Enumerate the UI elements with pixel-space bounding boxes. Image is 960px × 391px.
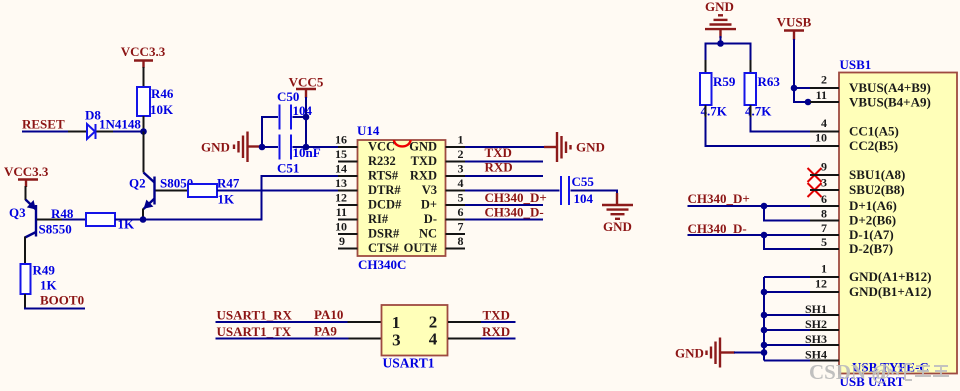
svg-text:CC1(A5): CC1(A5) — [849, 124, 899, 139]
svg-text:2: 2 — [821, 73, 827, 87]
svg-text:1N4148: 1N4148 — [99, 117, 141, 132]
svg-text:RI#: RI# — [368, 212, 389, 226]
resistor R49 — [21, 263, 58, 295]
svg-text:CSDN @: CSDN @ — [809, 360, 891, 384]
svg-text:SBU2(B8): SBU2(B8) — [849, 182, 905, 197]
wire USART1_TX to P1 pin3 — [216, 338, 383, 340]
svg-text:3: 3 — [458, 162, 464, 176]
svg-text:12: 12 — [815, 277, 827, 291]
wire R46 to node A — [143, 116, 145, 132]
svg-text:6: 6 — [821, 192, 827, 206]
wire C50 to VCC5 node — [293, 116, 307, 118]
svg-text:8: 8 — [458, 234, 464, 248]
svg-text:D-2(B7): D-2(B7) — [849, 241, 893, 256]
wire GND to shield bus — [734, 352, 764, 354]
node E junction (C51/VCC5/pin16) — [303, 144, 310, 151]
svg-text:3: 3 — [821, 176, 827, 190]
svg-text:RXD: RXD — [482, 324, 510, 339]
watermark CSDN — [809, 360, 949, 384]
U14 left pin names — [368, 140, 402, 256]
svg-text:11: 11 — [336, 205, 347, 219]
svg-text:12: 12 — [335, 191, 347, 205]
node O junction (GND wire) — [761, 349, 768, 356]
wire U14 pin2 TXD — [465, 161, 543, 163]
node G junction (VUSB/pin2) — [791, 85, 798, 92]
svg-text:D+2(B6): D+2(B6) — [849, 213, 896, 228]
svg-text:VUSB: VUSB — [777, 15, 812, 30]
resistor R46 — [137, 86, 174, 117]
wire CH340_D+ to USB1 pin6/pin8 — [688, 206, 811, 221]
svg-text:104: 104 — [293, 103, 313, 118]
power VCC3.3 (left) — [4, 164, 49, 187]
svg-text:CH340_D-: CH340_D- — [485, 205, 544, 220]
node I junction (D+ branch) — [761, 203, 768, 210]
U14 right pin stubs 1..8 — [446, 147, 466, 249]
svg-text:SH3: SH3 — [805, 332, 827, 346]
svg-text:5: 5 — [458, 191, 464, 205]
svg-text:NC: NC — [419, 227, 437, 241]
svg-text:CH340_D-: CH340_D- — [688, 221, 747, 236]
wire shield/ground bus — [764, 277, 810, 361]
node D junction (C50/VCC5) — [303, 114, 310, 121]
wire C55 to ground — [571, 191, 618, 195]
svg-text:VCC: VCC — [368, 140, 395, 154]
connector USB1 USB TYPE-C body — [839, 57, 957, 389]
power VUSB — [777, 15, 812, 41]
svg-text:GND: GND — [409, 140, 437, 154]
svg-text:RXD: RXD — [410, 169, 437, 183]
svg-text:GND: GND — [675, 346, 704, 361]
svg-text:SBU1(A8): SBU1(A8) — [849, 167, 905, 182]
svg-text:5: 5 — [821, 235, 827, 249]
svg-text:OUT#: OUT# — [404, 241, 438, 255]
svg-text:USART1: USART1 — [383, 355, 435, 370]
svg-text:9: 9 — [821, 160, 827, 174]
wire R59 to USB1 pin10 CC2 — [706, 105, 811, 146]
wire GND to node C — [248, 145, 261, 147]
svg-text:USB1: USB1 — [840, 57, 872, 72]
svg-text:R49: R49 — [33, 263, 56, 278]
node J junction (D- branch) — [761, 232, 768, 239]
wire U14 pin5 CH340_D+ — [465, 204, 543, 206]
wire R49 to BOOT0 — [24, 294, 26, 309]
no-ERC cross pin9 — [808, 168, 822, 182]
svg-text:R63: R63 — [758, 74, 781, 89]
capacitor C55 — [561, 174, 594, 206]
USB1 pin stubs — [810, 88, 839, 361]
svg-text:D-: D- — [424, 212, 437, 226]
svg-text:10: 10 — [815, 131, 827, 145]
svg-text:CH340C: CH340C — [358, 257, 406, 272]
svg-text:4: 4 — [821, 116, 827, 130]
svg-text:CH340_D+: CH340_D+ — [688, 191, 750, 206]
svg-text:DCD#: DCD# — [368, 198, 402, 212]
wire R63 to USB1 pin4 CC1 — [751, 105, 811, 132]
wire Q3 collector to R49 — [24, 237, 26, 265]
resistor R47 — [188, 176, 240, 207]
svg-text:TXD: TXD — [483, 308, 510, 323]
svg-text:10K: 10K — [150, 102, 174, 117]
svg-text:TXD: TXD — [411, 154, 437, 168]
ground GND (below C55, earth style) — [602, 193, 633, 234]
wire GND to R59/R63 tops — [706, 36, 751, 73]
svg-text:GND(B1+A12): GND(B1+A12) — [849, 284, 932, 299]
U14 left pin numbers — [335, 133, 347, 249]
svg-text:1: 1 — [392, 313, 401, 332]
wire RESET net — [22, 131, 70, 133]
wire node B to CH340 pin14 RTS# — [143, 176, 338, 220]
ground GND (top right, earth style up) — [705, 0, 736, 38]
wire P1 pin2 to TXD — [448, 321, 516, 323]
svg-text:C55: C55 — [572, 174, 595, 189]
svg-text:R46: R46 — [151, 86, 174, 101]
wire U14 pin6 CH340_D- — [465, 219, 543, 221]
wire U14 pin1 to GND — [465, 146, 544, 148]
node M junction (SH2) — [761, 327, 768, 334]
svg-text:BOOT0: BOOT0 — [40, 293, 84, 308]
svg-text:SH2: SH2 — [805, 317, 827, 331]
wire BOOT0 net — [25, 308, 85, 309]
svg-text:8: 8 — [821, 207, 827, 221]
node C junction (GND/C50/C51) — [259, 144, 266, 151]
op-amp U14 CH340C body — [357, 123, 446, 272]
svg-text:VCC5: VCC5 — [289, 75, 324, 90]
svg-text:USART1_RX: USART1_RX — [217, 308, 293, 323]
node B junction (Q2 emitter/R48/RTS wire) — [140, 216, 147, 223]
svg-text:C51: C51 — [277, 161, 299, 176]
wire CH340_D- to USB1 pin7/pin5 — [688, 235, 811, 249]
svg-text:1: 1 — [458, 133, 464, 147]
transistor Q2 S8050 — [129, 173, 193, 210]
svg-text:3: 3 — [392, 330, 401, 349]
svg-text:R232: R232 — [368, 154, 396, 168]
svg-text:GND(A1+B12): GND(A1+B12) — [849, 269, 932, 284]
diode D8 1N4148 — [68, 108, 141, 140]
svg-text:CH340_D+: CH340_D+ — [485, 190, 547, 205]
wire U14 pin3 RXD — [465, 175, 543, 177]
wire C51 to CH340 pin16 VCC — [293, 146, 339, 148]
svg-text:GND: GND — [576, 140, 605, 155]
svg-text:GND: GND — [201, 140, 230, 155]
wire node A to Q2 collector — [143, 132, 145, 173]
resistor R63 — [745, 73, 781, 119]
svg-text:S8550: S8550 — [39, 222, 72, 237]
svg-text:4: 4 — [458, 176, 464, 190]
svg-text:RTS#: RTS# — [368, 169, 399, 183]
svg-text:U14: U14 — [357, 123, 380, 138]
no-ERC cross pin3 — [808, 183, 822, 197]
wire D8 to node A — [113, 131, 144, 133]
wire U14 pin4 V3 to C55 — [465, 190, 560, 192]
wire USART1_RX to P1 pin1 — [216, 321, 383, 323]
svg-text:VBUS(A4+B9): VBUS(A4+B9) — [849, 80, 931, 95]
svg-text:C50: C50 — [277, 89, 299, 104]
node K junction (pin12) — [761, 289, 768, 296]
U14 right pin names — [404, 140, 438, 256]
svg-text:6: 6 — [458, 205, 464, 219]
wire VCC3.3 to Q3 emitter — [25, 186, 27, 200]
power VCC5 — [289, 75, 324, 99]
power VCC3.3 (top) — [121, 44, 166, 68]
svg-text:7: 7 — [458, 220, 464, 234]
svg-text:VCC3.3: VCC3.3 — [121, 44, 166, 59]
svg-text:RXD: RXD — [485, 160, 513, 175]
wire VUSB to USB1 pin2/pin11 — [794, 39, 810, 102]
svg-text:1K: 1K — [40, 278, 58, 293]
svg-text:13: 13 — [335, 176, 347, 190]
svg-text:RESET: RESET — [22, 117, 65, 132]
node H junction (pin11 wire) — [805, 99, 812, 106]
svg-text:7: 7 — [821, 221, 827, 235]
wire R47 to CH340 pin13 DTR# — [217, 190, 338, 192]
svg-text:USART1_TX: USART1_TX — [217, 324, 292, 339]
node F junction (GND/R59/R63) — [717, 40, 724, 47]
node A junction (D8/R46/Q2 collector) — [140, 128, 147, 135]
USB1 pin numbers — [805, 73, 827, 362]
wire Q3 base to R48 — [62, 219, 86, 221]
svg-text:D+: D+ — [421, 198, 437, 212]
svg-text:VCC3.3: VCC3.3 — [4, 164, 49, 179]
resistor R48 — [51, 206, 135, 232]
wire VCC3.3 to R46 — [143, 67, 145, 87]
svg-text:14: 14 — [335, 162, 347, 176]
svg-text:DTR#: DTR# — [368, 183, 401, 197]
svg-text:104: 104 — [574, 191, 594, 206]
svg-text:10: 10 — [335, 220, 347, 234]
svg-text:4.7K: 4.7K — [745, 104, 772, 119]
capacitor C51 — [262, 135, 321, 176]
svg-text:D+1(A6): D+1(A6) — [849, 198, 897, 213]
svg-text:16: 16 — [335, 133, 347, 147]
svg-text:R47: R47 — [217, 176, 240, 191]
svg-text:1K: 1K — [218, 192, 236, 207]
svg-text:9: 9 — [339, 234, 345, 248]
svg-text:1: 1 — [821, 262, 827, 276]
U14 left pin stubs 16..9 — [338, 147, 358, 249]
svg-text:SH1: SH1 — [805, 302, 827, 316]
svg-text:VBUS(B4+A9): VBUS(B4+A9) — [849, 95, 931, 110]
svg-text:R59: R59 — [713, 74, 736, 89]
transistor Q3 S8550 — [9, 200, 72, 238]
wire node C up to C50 — [262, 117, 278, 147]
svg-text:PA9: PA9 — [314, 324, 337, 339]
svg-text:V3: V3 — [422, 183, 437, 197]
ground GND (right of U14 pin1) — [544, 132, 605, 162]
svg-text:Q3: Q3 — [9, 205, 26, 220]
svg-text:R48: R48 — [51, 206, 74, 221]
USB1 pin names — [849, 80, 932, 299]
svg-text:2: 2 — [458, 147, 464, 161]
wire P1 pin4 to RXD — [448, 338, 516, 340]
node L junction (SH1) — [761, 312, 768, 319]
resistor R59 — [700, 73, 736, 119]
svg-text:GND: GND — [603, 219, 632, 234]
svg-text:DSR#: DSR# — [368, 227, 400, 241]
node N junction (SH3) — [761, 342, 768, 349]
ground GND (bottom left of USB1) — [675, 338, 735, 368]
wire R48 to node B — [115, 219, 143, 221]
svg-text:4: 4 — [429, 330, 438, 349]
svg-text:15: 15 — [335, 147, 347, 161]
ground GND (left of C51) — [201, 132, 248, 163]
svg-text:GND: GND — [705, 0, 734, 14]
svg-text:Q2: Q2 — [129, 176, 146, 191]
svg-text:PA10: PA10 — [314, 307, 343, 322]
svg-text:CC2(B5): CC2(B5) — [849, 138, 898, 153]
wire Q2 emitter to node B — [142, 209, 144, 220]
capacitor C50 — [277, 89, 313, 130]
svg-text:D-1(A7): D-1(A7) — [849, 227, 894, 242]
svg-text:TXD: TXD — [485, 145, 512, 160]
wire VCC5 down to node D and E — [305, 97, 307, 147]
U14 right pin numbers — [458, 133, 464, 249]
svg-text:CTS#: CTS# — [368, 241, 399, 255]
svg-text:11: 11 — [816, 88, 827, 102]
connector USART1 body — [382, 305, 448, 370]
